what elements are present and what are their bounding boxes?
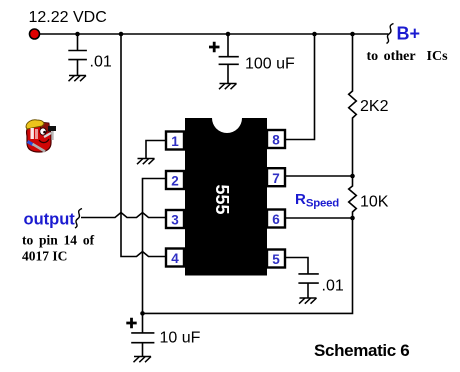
capacitor C4 10 uF polarity plus <box>126 318 136 328</box>
capacitor C2 100 uF <box>219 34 239 84</box>
svg-text:2K2: 2K2 <box>360 98 389 115</box>
IC U1 555 body <box>185 118 267 276</box>
svg-text:1: 1 <box>171 134 179 149</box>
ground at pin 1 <box>137 159 155 165</box>
node junction R1/pin7 <box>350 174 355 179</box>
svg-text:555: 555 <box>212 184 232 214</box>
mascot icon <box>26 120 56 152</box>
node junction rail/pin8 riser <box>312 32 317 37</box>
node 12.22 VDC supply terminal <box>30 29 40 39</box>
svg-text:6: 6 <box>272 212 280 227</box>
pin box 1 <box>166 132 184 150</box>
node junction rail/R1 <box>350 32 355 37</box>
pin box 4 <box>166 249 184 267</box>
IC U1 notch <box>212 103 242 133</box>
resistor R1 2K2 <box>349 34 357 176</box>
wire top supply rail <box>35 33 389 35</box>
wire right rail down and bottom return to timing node <box>143 218 353 313</box>
svg-text:B+: B+ <box>397 24 421 44</box>
svg-text:5: 5 <box>272 252 280 267</box>
pin box 3 <box>166 210 184 228</box>
svg-text:100 uF: 100 uF <box>245 56 295 73</box>
wire pin 5 to C3 <box>286 258 308 274</box>
svg-text:12.22 VDC: 12.22 VDC <box>29 9 107 26</box>
capacitor C3 .01 <box>298 274 318 298</box>
wire pin 1 to ground stub <box>146 141 165 159</box>
svg-text:Schematic 6: Schematic 6 <box>314 341 409 360</box>
wire reset line from rail down to pin 4 with hop over trigger line <box>121 34 165 257</box>
svg-text:2: 2 <box>171 174 179 189</box>
svg-text:4017 IC: 4017 IC <box>22 248 67 263</box>
pin box 5 <box>267 250 285 268</box>
node junction rail/reset line <box>119 32 124 37</box>
capacitor C1 .01 <box>68 34 87 76</box>
ground below C3 <box>299 298 317 304</box>
wire break squiggle to B+ <box>387 24 394 44</box>
resistor R2 RSpeed 10K <box>349 176 357 218</box>
wire pin 6 to R2 bottom node <box>286 217 353 219</box>
svg-text:4: 4 <box>171 251 179 266</box>
svg-text:to pin 14 of: to pin 14 of <box>22 233 95 248</box>
ground below C1 <box>69 76 87 82</box>
svg-text:output: output <box>24 211 76 229</box>
pin box 2 <box>166 171 184 189</box>
wire pin 7 to R1/R2 node <box>286 175 353 177</box>
svg-text:.01: .01 <box>322 278 344 295</box>
svg-text:.01: .01 <box>90 54 112 71</box>
ground below C4 <box>134 357 152 363</box>
svg-text:to other ICs: to other ICs <box>367 49 449 64</box>
pin box 8 <box>267 130 285 148</box>
wire trigger line pin 2 down to timing node <box>143 179 166 314</box>
pin box 7 <box>267 168 285 186</box>
node timing junction C4 <box>140 311 145 316</box>
svg-text:10K: 10K <box>360 193 389 210</box>
node junction R2/pin6 <box>350 216 355 221</box>
capacitor C4 10 uF <box>131 313 154 356</box>
svg-text:3: 3 <box>171 213 179 228</box>
wire output to pin 3 with hops <box>81 213 165 218</box>
svg-text:8: 8 <box>272 133 280 148</box>
ground below C2 <box>219 84 237 90</box>
wire pin 8 to supply rail <box>286 34 315 140</box>
capacitor C2 100 uF polarity plus <box>209 42 220 52</box>
svg-text:7: 7 <box>272 171 280 186</box>
node junction rail/C2 <box>226 32 231 37</box>
wire break squiggle at output <box>75 209 82 229</box>
pin box 6 <box>267 210 285 228</box>
svg-text:10 uF: 10 uF <box>160 330 201 347</box>
node junction rail/C1 <box>75 32 80 37</box>
